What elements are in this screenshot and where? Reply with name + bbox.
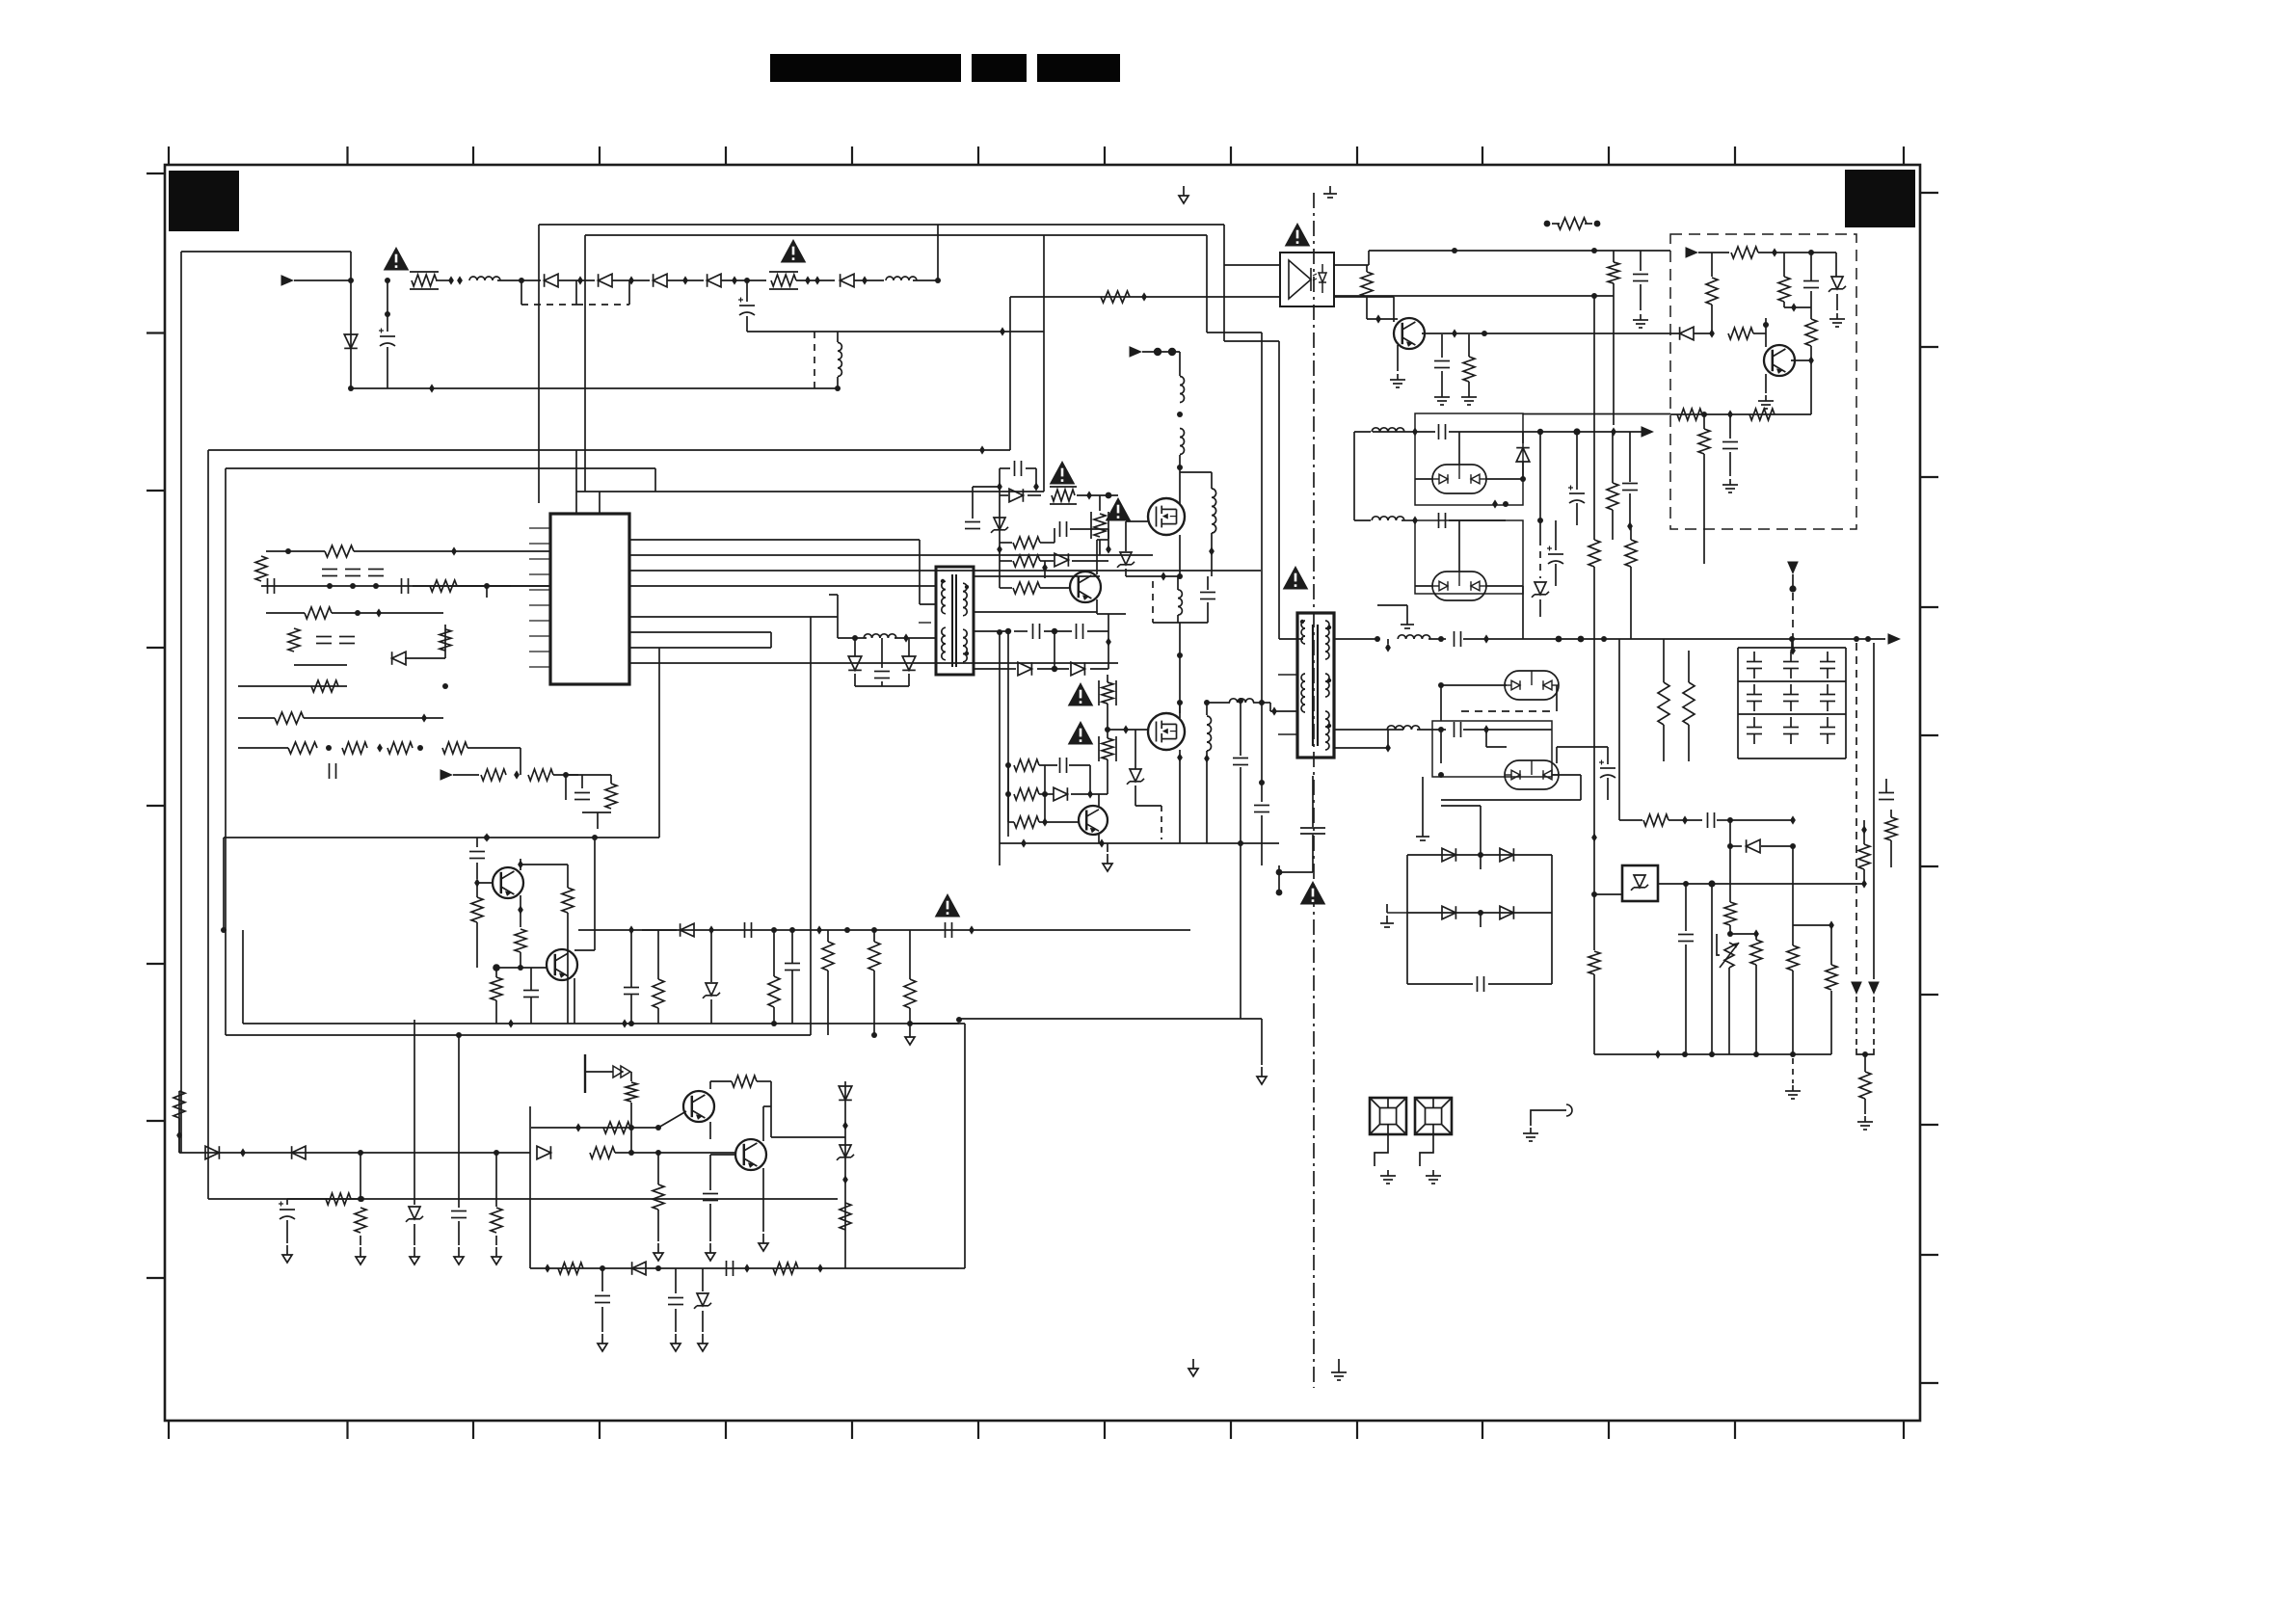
wire (757, 1080, 771, 1082)
wire rail to bank (1619, 638, 1885, 640)
wire (467, 747, 521, 749)
junction (871, 1032, 877, 1038)
wire (495, 968, 497, 977)
wire (582, 811, 611, 813)
junction (1021, 838, 1027, 847)
zener diode D35 (1829, 277, 1846, 292)
wire (1107, 759, 1108, 794)
junction (1591, 833, 1597, 841)
IC U1 left pin 9 (529, 651, 550, 652)
wire zener branch (1522, 432, 1524, 443)
wire (1135, 785, 1136, 806)
wire (1441, 805, 1481, 807)
wire (1206, 758, 1208, 843)
wire (1864, 1099, 1866, 1114)
wire (1810, 253, 1812, 280)
junction (474, 878, 480, 887)
diode D27 (1054, 787, 1067, 801)
title block bar 1 (770, 54, 961, 82)
wire stair b (1261, 333, 1263, 783)
wire riser (1043, 235, 1045, 332)
wire (1485, 730, 1487, 747)
capacitor C37 (electrolytic) (1599, 760, 1615, 779)
resistor R23b (904, 979, 916, 1008)
wire (1585, 223, 1592, 225)
wire (405, 657, 445, 659)
junction (518, 905, 523, 914)
wire bus extension (959, 1018, 1262, 1020)
junction (655, 1125, 661, 1131)
down arrow (to deflection) (1851, 982, 1862, 996)
wire (436, 279, 449, 281)
wire (521, 864, 568, 865)
spark gap arrow (613, 1066, 623, 1078)
junction (1276, 890, 1283, 896)
zener diode D12 (406, 1207, 423, 1222)
junction (377, 743, 383, 752)
diode D16 (632, 1262, 646, 1275)
wire (1338, 1359, 1340, 1367)
wire (332, 612, 443, 614)
diode D11 (292, 1146, 306, 1159)
junction (1259, 700, 1265, 705)
wire (770, 632, 772, 648)
junction (350, 583, 356, 589)
resistor R44 (1014, 759, 1039, 771)
wire (1790, 717, 1792, 727)
wire input loop top (181, 251, 351, 253)
wire (1099, 540, 1101, 555)
capacitor C49 (bank) (1820, 662, 1835, 669)
isolation barrier (hot/cold) dash-dot line (1313, 193, 1315, 1388)
junction (1790, 1051, 1796, 1057)
junction (1483, 634, 1489, 643)
IC U1 left pin 1 (529, 527, 550, 529)
chassis ground (905, 1027, 915, 1045)
junction (628, 925, 634, 934)
wire (1026, 467, 1036, 469)
diode D18 (848, 656, 862, 670)
ground (698, 1334, 707, 1351)
wire (1640, 284, 1642, 310)
resistor R41 (1013, 582, 1040, 594)
wire stair a (1223, 225, 1225, 341)
junction (997, 629, 1002, 635)
wire (1810, 291, 1812, 307)
capacitor C10 (330, 763, 336, 779)
capacitor C32 (1439, 424, 1446, 439)
T1 primary winding (942, 581, 946, 614)
resistor R9 (311, 680, 338, 692)
junction (1591, 248, 1597, 253)
wire (959, 1267, 965, 1269)
diode D38 (1442, 848, 1455, 862)
wire (1261, 815, 1263, 865)
junction (1177, 412, 1183, 417)
junction (956, 1017, 962, 1023)
fusible resistor R38 (1091, 512, 1108, 539)
capacitor C5 (345, 570, 360, 576)
T2 secondary winding 2 (1325, 674, 1329, 697)
resistor R48 (1101, 291, 1130, 303)
warning triangle (1068, 721, 1094, 745)
wire (999, 468, 1001, 487)
junction (1482, 331, 1487, 336)
diode D1 (degauss) (545, 274, 558, 287)
junction (1412, 516, 1418, 524)
border frame (165, 165, 1920, 1421)
junction (805, 276, 811, 284)
module outline (1432, 721, 1552, 777)
inductor L9 (1372, 428, 1404, 432)
junction (221, 927, 227, 933)
IC U1 left pin 3 (529, 558, 550, 560)
wire lower link bus (226, 1034, 811, 1036)
wire (1522, 586, 1524, 639)
diode D3 (654, 274, 667, 287)
wire (1402, 519, 1415, 521)
wire (1142, 351, 1180, 353)
wire (286, 1199, 288, 1205)
wire (796, 279, 835, 281)
wire (1441, 334, 1443, 358)
junction (842, 1121, 848, 1130)
wire (1551, 913, 1553, 984)
wire (999, 543, 1001, 588)
junction (1238, 698, 1243, 704)
junction (1753, 1051, 1759, 1057)
junction (563, 772, 569, 778)
wire (287, 1198, 324, 1200)
wire (657, 1008, 659, 1024)
junction (1204, 700, 1210, 705)
wire (1486, 585, 1523, 587)
resistor R33 (653, 1184, 664, 1210)
wire (1415, 478, 1432, 480)
wire (909, 930, 911, 979)
junction (1452, 248, 1457, 253)
wire (597, 812, 599, 829)
wire (630, 1103, 632, 1153)
capacitor C16 (electrolytic) (279, 1202, 295, 1220)
IC U1 left pin 8 (529, 635, 550, 637)
wire (476, 863, 478, 879)
junction (1478, 852, 1483, 858)
wire primary pin (1270, 710, 1297, 712)
wire (1125, 569, 1127, 576)
wire (1810, 307, 1812, 319)
wire to transformer primary top (1279, 638, 1303, 640)
twin diode module D33 (1505, 760, 1559, 789)
diode D10 (205, 1146, 219, 1159)
wire (1354, 519, 1371, 521)
junction (835, 386, 841, 391)
junction (1385, 743, 1391, 752)
capacitor C53 (1678, 935, 1694, 942)
wire (1179, 352, 1181, 376)
IC U1 left pin 6 (529, 604, 550, 606)
wire IC pin to transformer (629, 585, 936, 587)
junction (1105, 727, 1110, 732)
wire (630, 995, 632, 1024)
wire (178, 1091, 180, 1153)
capacitor C17 (451, 1211, 467, 1218)
junction (744, 1264, 750, 1272)
wire quad top (1407, 854, 1552, 856)
wire (1711, 305, 1713, 332)
capacitor C40 (1434, 361, 1450, 368)
down arrow (remote) (1787, 562, 1799, 575)
wire T1 pin wire 1 (974, 575, 1100, 577)
wire (1827, 652, 1829, 661)
resistor R60 (1698, 429, 1710, 454)
wire (266, 550, 325, 552)
wire long riser (1117, 555, 1119, 663)
wire (1211, 472, 1213, 489)
capacitor C51 (bank) (1820, 728, 1835, 734)
wire (1441, 799, 1581, 801)
wire (1480, 855, 1482, 869)
wire (657, 1153, 659, 1184)
wire (1386, 904, 1388, 913)
wire (1070, 528, 1108, 530)
wire (709, 1155, 711, 1190)
degauss posistor connector J2 (1415, 1098, 1452, 1134)
twin diode module D30 (1432, 572, 1486, 600)
junction (1789, 636, 1795, 642)
junction (1503, 501, 1508, 507)
junction (1271, 706, 1277, 715)
junction (1727, 410, 1733, 418)
wire (1108, 614, 1109, 669)
wire (1729, 414, 1731, 439)
junction (1042, 791, 1048, 797)
junction (1452, 329, 1457, 337)
junction (1000, 327, 1005, 335)
wire (702, 1311, 704, 1332)
inductor L8 (1398, 635, 1430, 639)
T1 primary winding lower (942, 627, 946, 660)
wire (1044, 561, 1046, 578)
diode D14 (839, 1086, 852, 1100)
junction (376, 608, 382, 617)
wire (1153, 622, 1208, 624)
resistor R32 (590, 1147, 615, 1158)
ground (1523, 1128, 1538, 1141)
junction (682, 276, 688, 284)
wire (1366, 265, 1368, 272)
wire (1890, 810, 1892, 817)
ground (1103, 854, 1112, 871)
T2 polarity dot (1327, 678, 1331, 682)
wire (1522, 462, 1524, 479)
T2 polarity dot (1327, 724, 1331, 728)
wire (1253, 702, 1262, 704)
resistor R16 (528, 769, 553, 781)
junction (628, 1150, 634, 1156)
wire (1071, 793, 1108, 795)
wire IC top pin (575, 450, 577, 514)
diode D2 (599, 274, 612, 287)
transistor Q4 (735, 1139, 766, 1170)
wire quad left (1406, 855, 1408, 913)
ground (598, 1334, 607, 1351)
junction (600, 1265, 605, 1271)
warning triangle (1283, 566, 1309, 590)
wire (1792, 971, 1794, 1054)
wire (1223, 225, 1225, 265)
wire (746, 280, 748, 302)
wire riser quad (1480, 806, 1482, 855)
ground (1380, 1170, 1396, 1184)
wire (1753, 333, 1766, 334)
resistor R27 (355, 1208, 366, 1233)
wire (1072, 560, 1108, 562)
standby regulator dashed box (1670, 234, 1856, 529)
wire (1240, 767, 1241, 1019)
junction (1259, 780, 1265, 785)
junction (1099, 838, 1105, 847)
wire (1366, 297, 1368, 319)
wire bank right (1845, 648, 1847, 758)
junction (451, 546, 457, 555)
wire opto out (1334, 296, 1394, 298)
wire (1387, 730, 1389, 748)
capacitor C54 (1879, 793, 1894, 800)
wire (791, 971, 793, 1024)
resistor R68 (1859, 1072, 1871, 1099)
junction (326, 745, 332, 751)
junction (385, 311, 390, 317)
diode D40 (1442, 906, 1455, 919)
junction (814, 276, 820, 284)
resistor R54 (1706, 278, 1718, 305)
wire IC pin long (629, 554, 1153, 556)
junction (969, 925, 974, 934)
junction (1375, 636, 1380, 642)
junction (1709, 1051, 1715, 1057)
wire MOSFET drain (1179, 703, 1181, 718)
junction (816, 925, 822, 934)
junction (1627, 521, 1633, 530)
wire riser c (1043, 332, 1045, 492)
wire (702, 1268, 704, 1291)
resistor R4 (255, 556, 267, 581)
junction (903, 633, 909, 642)
resistor R45 (1014, 788, 1039, 800)
junction (1790, 815, 1796, 824)
wire (1863, 869, 1865, 884)
junction (732, 276, 737, 284)
grid reference square top-right (1845, 170, 1915, 227)
junction (1177, 573, 1183, 579)
wire T1 drain drop (999, 632, 1001, 865)
zener diode D21 (991, 518, 1008, 533)
junction (1005, 628, 1011, 634)
wire (1685, 945, 1687, 1054)
ground (454, 1247, 464, 1264)
ground (1857, 1116, 1873, 1130)
wire (1728, 968, 1730, 1054)
wire (178, 1118, 180, 1153)
top border tick marks (169, 146, 1904, 165)
wire (1830, 925, 1832, 965)
warning triangle (1300, 881, 1326, 905)
wire IC pin long (629, 616, 838, 618)
wire (1593, 974, 1595, 1054)
zener diode D26 (1127, 769, 1144, 785)
resistor R57 (1805, 319, 1817, 346)
degauss posistor connector J1 (1370, 1098, 1406, 1134)
wire (1406, 605, 1408, 617)
wire (773, 1007, 775, 1024)
wire (1007, 631, 1009, 837)
wire (1107, 675, 1108, 682)
MOSFET Q6 (chopper upper) (1148, 498, 1185, 535)
wire (909, 1008, 911, 1024)
wire (1206, 751, 1208, 758)
resistor R21 (491, 977, 502, 1000)
junction (519, 278, 524, 283)
wire IC pin (629, 631, 771, 633)
wire (1729, 452, 1731, 476)
wire (854, 638, 856, 656)
T2 polarity dot (1327, 625, 1331, 629)
wire (1784, 306, 1811, 308)
wire (1177, 615, 1179, 623)
junction (514, 770, 520, 779)
wire module stub (1458, 432, 1460, 465)
capacitor C43 (bank) (1747, 662, 1762, 669)
resistor R30 (603, 1122, 630, 1133)
resistor R75 (1826, 965, 1837, 990)
wire (1539, 432, 1541, 539)
wire secondary rail 2 (1334, 729, 1403, 731)
wire MOSFET drain (1179, 498, 1181, 505)
capacitor C7 (402, 578, 409, 594)
capacitor C58 (624, 988, 639, 995)
junction (575, 1123, 581, 1131)
wire (1527, 431, 1644, 433)
wire IC pin long low (629, 662, 1118, 664)
resistor R25 (174, 1091, 185, 1118)
wire (1630, 567, 1632, 639)
wire (838, 637, 867, 639)
wire riser (810, 617, 812, 1035)
wire (1717, 819, 1730, 821)
wire (1753, 652, 1755, 661)
wire clamp drop right (628, 280, 630, 305)
junction (1412, 427, 1418, 436)
wire U3 out (1658, 883, 1864, 885)
wire (908, 638, 910, 656)
terminal (1544, 221, 1551, 227)
wire (1261, 783, 1263, 802)
warning triangle (935, 893, 961, 918)
junction (871, 927, 877, 933)
diode D37 (1747, 839, 1760, 853)
wire (486, 586, 488, 598)
wire (1449, 519, 1506, 521)
secondary ground (1401, 617, 1414, 628)
wire Q1 emitter (520, 895, 521, 927)
wire (710, 999, 712, 1024)
wire (458, 1035, 460, 1208)
wire Q2 emitter (574, 978, 575, 1024)
resistor R40 (1013, 555, 1040, 567)
wire U3 left leg (1593, 894, 1595, 950)
wire (476, 838, 478, 847)
